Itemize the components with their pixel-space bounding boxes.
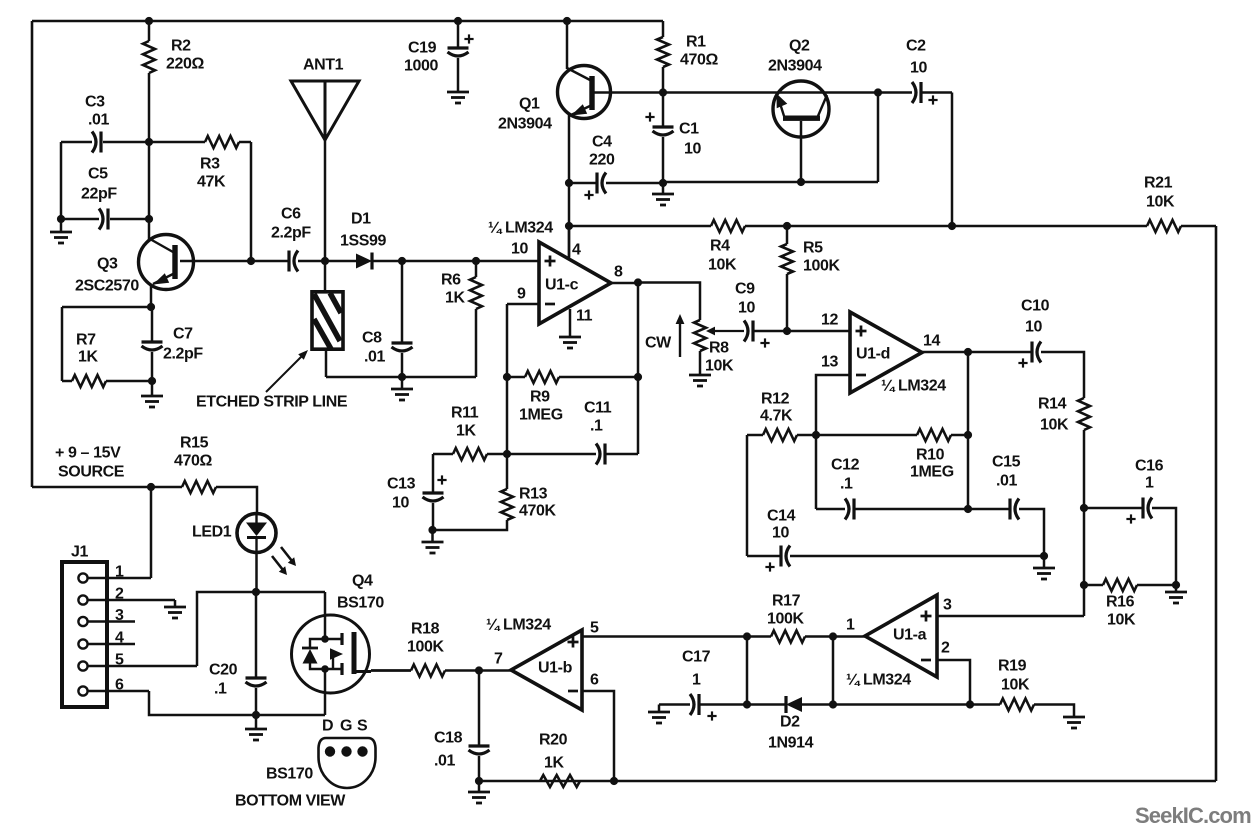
ground C1 (652, 194, 674, 205)
wire Q1 emitter down to U1-c pin4 (568, 115, 571, 258)
svg-text:10K: 10K (1040, 417, 1069, 434)
resistor R5 (781, 244, 793, 274)
wire to ground (174, 600, 177, 607)
svg-text:C10: C10 (1021, 298, 1050, 315)
svg-text:4: 4 (572, 242, 581, 259)
capacitor C12 (845, 499, 854, 520)
wire C4 left (569, 182, 597, 185)
wire to ground (255, 715, 258, 729)
svg-text:R4: R4 (710, 238, 730, 255)
junction (1040, 552, 1048, 560)
capacitor C14 (781, 546, 790, 567)
wire U1-d output (922, 351, 968, 354)
svg-text:R6: R6 (441, 272, 461, 289)
wire C1 bottom (662, 137, 665, 183)
svg-text:S: S (357, 718, 368, 735)
svg-text:ANT1: ANT1 (303, 57, 344, 74)
svg-text:CW: CW (645, 335, 672, 352)
wire R15 to LED1 (216, 487, 257, 514)
svg-text:R8: R8 (709, 340, 729, 357)
strip line pointer arrow (266, 350, 308, 392)
wire C4 right (606, 182, 663, 185)
ground R8 (689, 375, 711, 386)
wire C13 bottom (432, 503, 435, 530)
wire to ground (658, 705, 661, 713)
svg-text:470K: 470K (519, 503, 556, 520)
svg-text:1K: 1K (78, 349, 98, 366)
wire C2 right (921, 91, 952, 94)
svg-text:Q1: Q1 (519, 96, 540, 113)
wire to ground (662, 183, 665, 194)
capacitor C19 (448, 48, 469, 56)
svg-text:10K: 10K (705, 358, 734, 375)
wire J1 pin6 (88, 690, 149, 693)
junction (563, 17, 571, 25)
wire R17 right (805, 635, 833, 638)
svg-text:C9: C9 (735, 281, 755, 298)
svg-text:C20: C20 (209, 662, 238, 679)
svg-text:220Ω: 220Ω (166, 56, 204, 73)
svg-text:2: 2 (941, 640, 950, 657)
wire pin1 to supply (150, 487, 153, 578)
wire C2 down to rail (951, 93, 954, 227)
resistor R7 (72, 375, 106, 387)
svg-text:¼ LM324: ¼ LM324 (486, 617, 551, 634)
svg-text:1K: 1K (445, 290, 465, 307)
svg-text:¼ LM324: ¼ LM324 (846, 672, 911, 689)
LED LED1 (237, 514, 296, 576)
wire bias rail (569, 225, 711, 228)
junction (964, 431, 972, 439)
resistor R20 (540, 775, 580, 787)
wire pin5 to gate node (197, 592, 256, 666)
ground U1-c pin11 (559, 337, 581, 348)
wire R2 to Q3 base (148, 73, 151, 240)
svg-text:10: 10 (684, 141, 701, 158)
wire C6 to D1 (298, 260, 356, 263)
svg-text:10: 10 (1025, 319, 1042, 336)
ground C17 (648, 712, 670, 723)
capacitor C20 (246, 678, 267, 686)
svg-text:C7: C7 (173, 326, 193, 343)
svg-text:1K: 1K (544, 755, 564, 772)
wire R6 bottom (475, 309, 478, 377)
svg-text:C16: C16 (1135, 458, 1164, 475)
op-amp U1-a (865, 595, 937, 677)
svg-text:R3: R3 (200, 156, 220, 173)
junction (145, 215, 153, 223)
svg-text:R17: R17 (772, 593, 801, 610)
wire C10 right (1041, 352, 1084, 398)
wire C14 right (790, 555, 1044, 558)
U1-a minus input (921, 659, 931, 662)
wire Q3 collector line (180, 260, 289, 263)
svg-text:BOTTOM VIEW: BOTTOM VIEW (235, 793, 346, 810)
wire D1 to U1-c pin10 (372, 260, 539, 263)
junction (565, 222, 573, 230)
svg-text:G: G (340, 718, 352, 735)
capacitor C3 (92, 132, 101, 153)
wire R5 bottom (786, 274, 789, 331)
wire J1 pin5 (88, 665, 197, 668)
capacitor C10 (1032, 342, 1041, 363)
wire C11 right (605, 453, 638, 456)
junction (948, 222, 956, 230)
wire to ground (431, 530, 434, 542)
wire R12 right (797, 434, 816, 437)
wire pin4 (568, 226, 571, 257)
svg-text:C19: C19 (408, 40, 437, 57)
wire to ground (1043, 556, 1046, 568)
junction (475, 777, 483, 785)
svg-text:.01: .01 (364, 349, 386, 366)
junction (145, 17, 153, 25)
svg-text:Q2: Q2 (789, 38, 810, 55)
svg-text:.1: .1 (214, 681, 227, 698)
wire R19 right (1034, 705, 1074, 718)
wire pin3 (937, 615, 1084, 618)
svg-text:10K: 10K (1107, 612, 1136, 629)
svg-text:R5: R5 (803, 240, 823, 257)
ground J1 pin2 (164, 607, 186, 618)
junction (472, 257, 480, 265)
U1-b plus input (568, 637, 579, 648)
junction (398, 373, 406, 381)
ground C19 (447, 92, 469, 103)
resistor R3 (205, 136, 239, 148)
capacitor C2 (912, 82, 921, 103)
svg-text:C11: C11 (584, 400, 612, 417)
svg-text:22pF: 22pF (81, 186, 117, 203)
svg-text:.1: .1 (840, 476, 853, 493)
wire R11 left (433, 453, 453, 456)
svg-text:SeekIC.com: SeekIC.com (1135, 803, 1251, 828)
svg-text:BS170: BS170 (337, 595, 384, 612)
resistor R4 (711, 220, 745, 232)
ground R19 (1063, 717, 1085, 728)
junction (503, 450, 511, 458)
svg-text:C17: C17 (682, 649, 711, 666)
J1 pin 1 circle (78, 573, 87, 582)
junction (148, 377, 156, 385)
wire C17 left (659, 703, 690, 706)
svg-text:R10: R10 (916, 447, 945, 464)
svg-text:BS170: BS170 (266, 766, 313, 783)
svg-text:C5: C5 (88, 166, 108, 183)
junction (829, 700, 837, 708)
junction (252, 711, 260, 719)
wire (559, 376, 638, 379)
J1 pin 5 circle (78, 661, 87, 670)
capacitor C5 (99, 209, 108, 230)
wire R3 left (149, 141, 205, 144)
wire Q1 base (566, 21, 569, 69)
wire R11 right (487, 453, 507, 456)
svg-text:C3: C3 (85, 94, 105, 111)
svg-text:.01: .01 (434, 753, 456, 770)
junction (454, 17, 462, 25)
wire C1 top (662, 93, 665, 128)
svg-text:.01: .01 (88, 112, 110, 129)
resistor R2 (143, 41, 155, 73)
junction (57, 215, 65, 223)
wire to C11 (507, 453, 596, 456)
wire pin13 (816, 375, 850, 435)
U1-a plus input (921, 611, 932, 622)
svg-text:470Ω: 470Ω (174, 453, 212, 470)
svg-text:C13: C13 (387, 476, 416, 493)
U1-c minus input (545, 303, 555, 306)
junction (610, 777, 618, 785)
svg-text:R18: R18 (411, 621, 440, 638)
junction (503, 373, 511, 381)
svg-text:6: 6 (590, 672, 599, 689)
svg-text:U1-d: U1-d (856, 346, 890, 363)
resistor R18 (411, 665, 445, 677)
svg-text:C8: C8 (362, 330, 382, 347)
BS170 pads D G S (325, 746, 335, 756)
ground C18 (468, 792, 490, 803)
ground C8 (391, 389, 413, 400)
svg-text:D1: D1 (351, 211, 371, 228)
svg-text:2N3904: 2N3904 (768, 58, 822, 75)
wire C4 node to Q2 feedback (663, 181, 878, 184)
svg-text:R14: R14 (1038, 396, 1067, 413)
wire (106, 380, 152, 383)
svg-text:10: 10 (738, 300, 755, 317)
resistor R13 (501, 489, 513, 520)
wire R12 left (747, 434, 763, 437)
wire R1 top (662, 21, 665, 37)
junction (964, 348, 972, 356)
wire pin12 (787, 330, 850, 333)
wire top supply rail (32, 20, 663, 23)
wire R18 left (371, 669, 411, 672)
wire supply line (32, 486, 182, 488)
wire U1-c output (611, 282, 638, 285)
junction (874, 88, 882, 96)
svg-text:R11: R11 (451, 405, 479, 422)
wire Q4 source lead (324, 669, 327, 715)
junction (247, 257, 255, 265)
svg-text:220: 220 (589, 152, 615, 169)
svg-text:C14: C14 (767, 508, 796, 525)
wire U1-a out node down (832, 637, 835, 705)
ground C14/C15 (1033, 568, 1055, 579)
J1 pin 3 circle (78, 617, 87, 626)
capacitor C15 (1010, 499, 1019, 520)
wire right border (1215, 226, 1218, 781)
wire R17 left (747, 635, 771, 638)
junction (783, 222, 791, 230)
J1 pin 2 circle (78, 595, 87, 604)
capacitor C18 (469, 746, 490, 754)
capacitor C4 (597, 173, 606, 194)
resistor R15 (182, 481, 216, 493)
wire Q1 collector to Q2 (594, 91, 878, 94)
junction (634, 373, 642, 381)
diode D2 (786, 696, 802, 713)
svg-text:C4: C4 (592, 134, 612, 151)
svg-text:14: 14 (923, 333, 940, 350)
wire C18 top (478, 671, 481, 747)
junction (966, 700, 974, 708)
svg-text:47K: 47K (197, 174, 226, 191)
svg-text:.01: .01 (996, 473, 1018, 490)
wire J1 pin3 stub (88, 620, 135, 623)
wire output down to R9 (637, 283, 640, 377)
svg-text:R7: R7 (76, 332, 96, 349)
wire C16 left (1084, 507, 1143, 510)
wire R12 to C14 (746, 435, 749, 556)
svg-text:R19: R19 (998, 658, 1027, 675)
svg-text:C1: C1 (679, 121, 699, 138)
wire U1-a output (833, 635, 865, 638)
svg-text:1MEG: 1MEG (519, 407, 563, 424)
capacitor C13 (423, 493, 444, 501)
svg-text:10K: 10K (1146, 194, 1175, 211)
wire Q2 feedback up (877, 93, 880, 183)
junction (321, 257, 329, 265)
resistor R19 (1000, 699, 1034, 711)
svg-text:D: D (322, 718, 333, 735)
wire C3 right (103, 141, 149, 144)
svg-text:1: 1 (1145, 475, 1154, 492)
svg-text:10: 10 (511, 241, 528, 258)
wire R10 left (816, 434, 917, 437)
wire C11 up (637, 377, 640, 454)
junction (1172, 581, 1180, 589)
wire R18 right (445, 669, 479, 672)
BS170 bottom view package (319, 738, 376, 788)
wire Q2 base down (800, 121, 803, 182)
wire pin5 (582, 635, 747, 638)
svg-text:R13: R13 (519, 486, 548, 503)
wire C7 bottom (151, 352, 154, 381)
wire to C8 ground node (326, 376, 402, 379)
capacitor C16 (1143, 498, 1152, 519)
svg-text:2SC2570: 2SC2570 (75, 278, 139, 295)
junction (812, 431, 820, 439)
wire C5 right (110, 218, 149, 221)
svg-text:SOURCE: SOURCE (58, 464, 125, 481)
wire R7 top (62, 306, 151, 309)
junction (147, 303, 155, 311)
junction (964, 505, 972, 513)
svg-text:¼ LM324: ¼ LM324 (488, 220, 553, 237)
svg-text:Q3: Q3 (97, 256, 118, 273)
svg-text:+ 9 – 15V: + 9 – 15V (55, 445, 121, 462)
svg-text:C12: C12 (831, 457, 860, 474)
wire C16 right (1152, 508, 1176, 585)
svg-text:J1: J1 (71, 544, 88, 561)
wire C8 bottom (401, 353, 404, 377)
wire C20 bottom (255, 688, 258, 715)
wire C15 left (968, 508, 1010, 511)
resistor R16 (1103, 579, 1137, 591)
svg-text:1N914: 1N914 (768, 735, 814, 752)
svg-text:470Ω: 470Ω (680, 52, 718, 69)
wire R1 bottom (662, 67, 665, 93)
op-amp U1-c (539, 242, 611, 324)
wire C2 left (878, 91, 912, 94)
wire U1-c out to R8 (638, 283, 700, 321)
wire D2 to R19 (802, 703, 970, 706)
svg-text:R21: R21 (1144, 175, 1173, 192)
svg-text:1000: 1000 (404, 58, 438, 75)
CW arrow (676, 314, 685, 357)
junction (428, 526, 436, 534)
svg-text:R12: R12 (761, 391, 790, 408)
svg-text:R16: R16 (1106, 594, 1135, 611)
wire C10 left (968, 351, 1032, 354)
svg-text:U1-c: U1-c (545, 277, 579, 294)
wire to ground (60, 219, 63, 232)
wire J1 pin4 stub (88, 643, 135, 646)
junction (659, 179, 667, 187)
wire C5 left (61, 218, 99, 221)
wire R8 bottom (699, 351, 702, 375)
svg-text:10: 10 (392, 495, 409, 512)
wire pin11 (569, 309, 572, 337)
ground Q3 emitter (141, 396, 163, 407)
resistor R1 (657, 37, 669, 67)
wire to ground (1175, 585, 1178, 592)
junction (565, 179, 573, 187)
svg-text:5: 5 (590, 620, 599, 637)
capacitor C6 (289, 251, 298, 272)
U1-d plus input (856, 326, 867, 337)
capacitor C9 (744, 321, 753, 342)
junction (783, 327, 791, 335)
svg-text:8: 8 (614, 264, 623, 281)
connector J1 (62, 562, 107, 707)
svg-text:10: 10 (910, 60, 927, 77)
resistor R10 (917, 429, 951, 441)
junction (398, 257, 406, 265)
etched strip line (312, 292, 343, 349)
svg-text:7: 7 (494, 651, 503, 668)
wire C8 top (401, 261, 404, 343)
wire to ground (401, 377, 404, 389)
wire R16 right (1137, 584, 1176, 587)
svg-text:100K: 100K (407, 639, 444, 656)
ground C5 (50, 232, 72, 243)
resistor R17 (771, 631, 805, 643)
capacitor C7 (142, 342, 163, 350)
wire C17 right (699, 703, 747, 706)
wire R6 top (475, 261, 478, 277)
resistor R12 (763, 429, 797, 441)
ground C16 (1165, 592, 1187, 603)
wire left border (31, 21, 34, 487)
wire R14 down (1083, 430, 1086, 616)
capacitor C1 (653, 127, 674, 135)
svg-text:D2: D2 (780, 714, 800, 731)
wire antenna feed (324, 140, 327, 261)
svg-text:1SS99: 1SS99 (340, 233, 387, 250)
svg-text:10K: 10K (1001, 677, 1030, 694)
ground C13 (422, 542, 444, 553)
resistor R9 (525, 371, 559, 383)
wire R10 right (951, 434, 968, 437)
svg-text:C6: C6 (281, 206, 301, 223)
svg-text:1: 1 (846, 617, 855, 634)
svg-text:R20: R20 (539, 732, 568, 749)
capacitor C8 (392, 343, 413, 351)
wire Q3 emitter (150, 284, 153, 307)
ground C20 (245, 729, 267, 740)
